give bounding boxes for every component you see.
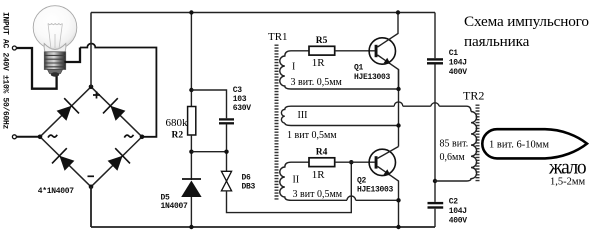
bridge ~ mark left [48, 135, 57, 138]
svg-text:TR2: TR2 [463, 89, 484, 103]
svg-text:жало: жало [548, 158, 586, 179]
capacitor C2 [428, 202, 444, 204]
svg-text:4*1N4007: 4*1N4007 [38, 187, 75, 196]
svg-text:3 вит 0,5мм: 3 вит 0,5мм [293, 189, 343, 200]
wire: bottom input terminal to bridge left corner [17, 136, 40, 138]
bridge diode D3 (bottom-to-left) [59, 156, 74, 171]
bridge ~ mark right [124, 135, 133, 138]
svg-text:C2: C2 [449, 198, 459, 207]
svg-text:INPUT AC 240V ±10% 50/60Hz: INPUT AC 240V ±10% 50/60Hz [1, 12, 10, 130]
svg-text:630V: 630V [233, 104, 252, 113]
svg-text:1 вит 0,5мм: 1 вит 0,5мм [287, 130, 337, 141]
wire: bridge + to top rail [90, 13, 92, 87]
resistor R2 [188, 107, 196, 136]
bridge diode D1 (left-to-top) [57, 106, 72, 121]
svg-text:TR1: TR1 [268, 31, 288, 43]
wire: top input terminal to lamp bottom contact [17, 48, 57, 89]
TR1 winding II [280, 162, 399, 200]
wire: R5 to Q1 base [335, 50, 375, 52]
wire: top rail to R2 [190, 13, 192, 107]
bridge rectifier wires (diamond) [40, 87, 142, 187]
wire: D6 to Q2 base node [227, 162, 352, 212]
svg-text:Q1: Q1 [354, 64, 364, 73]
TR1 winding III bottom lead [285, 123, 399, 126]
svg-text:0,6мм: 0,6мм [440, 152, 466, 163]
bridge diode D4 (bottom-to-right) [108, 156, 123, 171]
svg-text:1N4007: 1N4007 [161, 202, 189, 211]
svg-text:DB3: DB3 [242, 183, 256, 192]
TR2 secondary loop (soldering tip) [482, 129, 587, 158]
lamp (ballast light bulb) [33, 6, 77, 77]
svg-text:II: II [293, 175, 300, 186]
wire: top rail to C1 [434, 13, 436, 59]
wire: C1 to C2 (with hop) [434, 64, 436, 202]
transistor Q1 [369, 38, 395, 64]
bridge diode D2 (right-to-top) [110, 106, 125, 121]
wire: R2 to D5 [190, 135, 192, 180]
svg-text:C1: C1 [449, 49, 459, 58]
input terminal bottom (N) [12, 135, 16, 139]
transformer TR2 core [476, 105, 480, 183]
svg-text:680k: 680k [166, 117, 189, 129]
wire: R4 to Q2 base [335, 161, 375, 163]
svg-text:104J: 104J [449, 207, 467, 216]
Q2 emitter with arrow [378, 166, 399, 200]
svg-text:C3: C3 [233, 86, 243, 95]
svg-text:Q2: Q2 [357, 177, 367, 186]
diode D5 [182, 178, 201, 180]
Q1 collector [378, 13, 399, 48]
svg-text:HJE13003: HJE13003 [354, 73, 391, 82]
resistor R4 [309, 158, 335, 167]
bridge + mark [93, 92, 100, 99]
lamp filament structure [48, 24, 62, 50]
bridge - mark [88, 175, 95, 177]
svg-text:паяльника: паяльника [464, 33, 530, 50]
bottom rail wire [91, 226, 435, 228]
junction dots on R2 chain [189, 10, 193, 14]
svg-text:Схема импульсного: Схема импульсного [464, 13, 589, 30]
wire: C3 to D6, R2 bottom link [226, 124, 228, 171]
svg-text:400V: 400V [449, 217, 468, 226]
capacitor C1 [427, 58, 443, 60]
svg-text:I: I [292, 62, 295, 73]
wire hops on TR1 III to TR2 link [394, 102, 439, 106]
capacitor C3 [219, 118, 234, 120]
Q2 collector [378, 147, 399, 159]
diac D6 DB3 [221, 171, 231, 191]
wire: R2 node to C3 [191, 90, 226, 118]
svg-text:104J: 104J [449, 59, 467, 68]
svg-text:1R: 1R [312, 57, 326, 69]
resistor R5 [309, 46, 335, 55]
transistor Q2 [369, 149, 395, 175]
TR1 winding I [280, 51, 399, 89]
svg-text:1 вит. 6-10мм: 1 вит. 6-10мм [489, 140, 549, 151]
svg-text:III: III [298, 110, 308, 121]
svg-text:R5: R5 [316, 36, 328, 46]
bridge corner junction dots [38, 135, 43, 140]
svg-text:1,5-2мм: 1,5-2мм [550, 177, 586, 188]
wire: D5 to bottom rail [190, 197, 192, 227]
svg-text:3 вит. 0,5мм: 3 вит. 0,5мм [291, 77, 343, 88]
transformer TR1 core [275, 45, 279, 201]
lamp screw base [44, 52, 65, 70]
wire: lamp shell to bridge AC right (hop over bridge + wire) [65, 48, 81, 63]
wire: Q2 emitter node to bottom rail [398, 200, 400, 227]
wire: bridge - to bottom rail [90, 187, 92, 227]
svg-text:1R: 1R [312, 169, 326, 181]
TR1 winding III [281, 106, 471, 123]
input terminal top (L) [12, 46, 16, 50]
TR2 primary winding [435, 112, 477, 182]
svg-text:103: 103 [233, 95, 247, 104]
svg-text:R2: R2 [172, 131, 184, 141]
wire: Q1 emitter to Q2 collector (midpoint) [398, 70, 400, 147]
svg-text:400V: 400V [449, 68, 468, 77]
wire: C2 to bottom rail [434, 209, 436, 227]
svg-text:D6: D6 [242, 174, 252, 183]
Q1 emitter with arrow [378, 55, 399, 89]
wire hop on Q2 emitter to winding II link [347, 196, 356, 200]
svg-text:R4: R4 [316, 148, 328, 158]
top rail wire [91, 12, 435, 14]
svg-text:85 вит.: 85 вит. [440, 138, 469, 149]
svg-text:HJE13003: HJE13003 [357, 186, 394, 195]
